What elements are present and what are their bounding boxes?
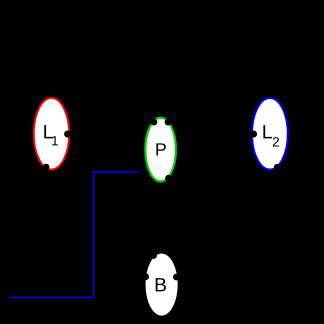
port dot on L2 bottom-right boundary (274, 164, 281, 171)
wire: blue edge from node P going left, down and left off-canvas (10, 172, 148, 298)
port dot on B left boundary (142, 273, 149, 280)
port dot on L1 bottom-left boundary (43, 164, 50, 171)
node L1 (red ellipse) (34, 98, 69, 170)
port dot on P bottom-right boundary (165, 175, 172, 182)
port dot on P top-right boundary (165, 119, 172, 126)
node B (white ellipse, black outline invisible on black) (146, 254, 178, 316)
node L2 (blue ellipse) (252, 98, 288, 170)
port dot on L1 right boundary (64, 131, 71, 138)
port dot at blue edge endpoint left of P (138, 168, 146, 176)
port dot on B right boundary (173, 274, 180, 281)
port dot on B top-left boundary (150, 252, 157, 259)
port dot on P top-left boundary (151, 119, 158, 126)
node P (green ellipse) (145, 118, 176, 182)
port dot on L2 left boundary (250, 131, 257, 138)
